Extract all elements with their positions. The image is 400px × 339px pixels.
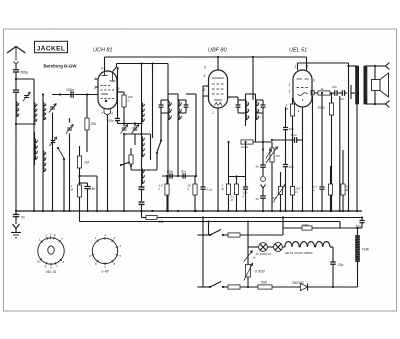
pot 0.5M	[273, 172, 286, 211]
coil L1 antenna	[16, 101, 19, 211]
transformer OT secondary	[364, 66, 367, 104]
trimmer C4	[66, 118, 73, 211]
coil L-osc bottom	[142, 157, 145, 185]
pickup jack	[261, 177, 266, 196]
IF1 coil b	[178, 94, 181, 126]
capacitor 5n pickup top	[256, 113, 272, 176]
wire x312 drop	[312, 96, 314, 211]
wire y176 row	[162, 175, 196, 177]
tube U1 UCH81 envelope	[98, 71, 117, 115]
resistor 20k feed	[142, 211, 165, 224]
coil L2	[34, 102, 37, 211]
diode 250/100	[291, 281, 358, 291]
ground bus	[15, 210, 362, 212]
coil L4	[35, 132, 38, 165]
capacitor 0.1u x322	[313, 92, 325, 211]
wire node y124	[15, 123, 36, 125]
resistor 1M AVC	[71, 182, 82, 222]
capacitor 100p y176	[167, 170, 174, 179]
wire U2 diode stubs	[203, 86, 209, 187]
switch S1a	[198, 230, 229, 237]
wire af line	[271, 139, 294, 141]
wire x152.5 drop	[152, 64, 154, 139]
tube U3 pin numbers	[288, 65, 316, 114]
socket diagram UEL51	[37, 233, 65, 275]
resistor 2M	[285, 98, 295, 140]
capacitor 5n pickup bottom	[256, 196, 266, 211]
resistor 1M osc	[77, 146, 88, 183]
trimmer C1	[23, 92, 30, 101]
wire x339 drop	[339, 96, 341, 211]
coil L5	[43, 150, 46, 211]
wire rail B y63.5	[113, 62, 168, 71]
speaker	[372, 66, 389, 104]
switch S2	[120, 162, 132, 170]
antenna	[7, 47, 26, 61]
capacitor 0.1u af	[291, 133, 303, 143]
wire mains pole mid	[208, 222, 210, 236]
wire U2 cathode down	[217, 108, 219, 211]
wire FeW bottom	[357, 262, 359, 287]
wire mains pole left	[202, 222, 204, 288]
lamp La1	[248, 243, 267, 252]
wire U2 plate to rail	[217, 57, 219, 70]
wire x253 drop	[252, 57, 254, 100]
heater UBF80	[315, 242, 333, 247]
label UBF80	[208, 48, 227, 54]
resistor 1k out	[318, 87, 330, 95]
speaker terminal bottom	[372, 101, 390, 108]
heater UCH81	[299, 242, 314, 247]
label heaters	[285, 251, 313, 255]
wire U3 pin6 up	[306, 57, 308, 70]
capacitor antenna 2nd	[13, 90, 19, 101]
label lamps	[255, 252, 271, 256]
tube U3 UEL51 envelope	[293, 70, 312, 107]
resistor 1.5k	[159, 175, 170, 211]
switch S-band	[57, 147, 65, 211]
wire U1 cathode down	[107, 115, 109, 211]
switch S1b	[198, 282, 229, 289]
capacitor 25u	[330, 247, 343, 288]
node antenna branch	[15, 78, 34, 90]
label UEL51	[289, 48, 307, 54]
resistor 20k	[85, 95, 96, 153]
wire x348.5 drop	[347, 63, 349, 211]
IF1 cap b	[178, 100, 188, 113]
capacitor 50p	[109, 67, 121, 124]
antenna socket	[14, 62, 19, 70]
wire link y134	[123, 133, 151, 160]
wire lamp branch	[247, 220, 249, 251]
capacitor 50u	[356, 218, 365, 229]
capacitor 10n x285 top	[283, 107, 294, 164]
tube U1 pin stubs	[95, 79, 99, 87]
IF2 coil b	[256, 94, 259, 126]
IF1 top link	[168, 93, 178, 95]
wire mid links	[131, 169, 157, 171]
coil L3	[42, 93, 46, 150]
wire rail A y57	[105, 56, 307, 58]
wire U3 pin1 up	[297, 63, 299, 70]
wire U1 plate to rail	[104, 57, 106, 71]
wire rail C y63	[298, 62, 349, 64]
trimmer C3	[49, 137, 56, 146]
IF1 coil a	[168, 64, 171, 127]
fuse Si1	[228, 233, 283, 237]
logo box JÄCKEL	[35, 41, 68, 52]
trimmer C2	[49, 103, 56, 211]
wire branch y176	[78, 175, 97, 211]
resistor 125	[290, 140, 300, 211]
IF2 cap a	[236, 100, 246, 113]
IF1 cap a	[159, 100, 168, 113]
tube U1 pin numbers	[93, 67, 120, 116]
wire IF1 a down	[167, 126, 169, 211]
wire IF2 b down	[255, 126, 257, 142]
wire link y123.5	[118, 122, 143, 124]
wire OT secondary top	[365, 65, 372, 67]
coil L-osc mid	[142, 136, 145, 157]
capacitor 10n out2	[338, 90, 345, 101]
heater UEL51	[282, 242, 299, 247]
ground symbol	[11, 224, 21, 238]
wire OT primary top	[349, 65, 358, 67]
wire heater top	[340, 222, 362, 236]
resistor 560	[318, 92, 334, 211]
capacitor 10n out1	[330, 85, 337, 96]
resistor 100	[117, 92, 133, 118]
resistor 0.2M x343	[341, 150, 350, 211]
wire branch down	[33, 79, 35, 102]
resistor 1M y185	[222, 141, 231, 211]
capacitor 5n AVC	[80, 183, 96, 211]
label UCH81	[93, 48, 113, 54]
resistor 0.1M y185	[231, 177, 239, 212]
IF2 coil a	[246, 94, 249, 126]
wire grid line y94.5	[52, 93, 98, 95]
capacitor osc 2	[139, 185, 145, 211]
transformer OT primary	[356, 66, 359, 104]
resistor 0.1M det	[241, 140, 253, 149]
IF2 cap b	[256, 100, 266, 113]
label Bernburg III-GW	[44, 64, 78, 69]
wire U3 pin9 out	[311, 91, 318, 95]
capacitor 0.1u x203	[200, 187, 212, 211]
wire U3 cathode down	[302, 107, 304, 211]
resistor osc	[129, 148, 133, 168]
resistor 100 heater	[283, 218, 340, 231]
socket diagram U-80	[89, 233, 121, 274]
resistor FeW	[355, 235, 370, 262]
capacitor coupling OT	[345, 85, 355, 99]
tube U2 UBF80 envelope	[209, 70, 228, 108]
resistor 30k	[188, 176, 198, 211]
lamp La2	[267, 243, 282, 252]
wire OT secondary bottom	[365, 103, 372, 105]
capacitor 50n y176	[181, 170, 186, 179]
label 500p antenna	[21, 71, 29, 75]
capacitor 10n x285 bottom	[283, 165, 294, 212]
wire line y217	[157, 216, 363, 218]
pot 1k shunt	[244, 251, 256, 262]
wire U2 pin7 to IF2	[228, 97, 239, 100]
tube U2 pin numbers	[204, 66, 231, 116]
wire row1 up	[282, 222, 284, 236]
wire x196	[186, 94, 197, 177]
trimmer osc a	[120, 118, 127, 211]
speaker terminal top	[372, 63, 390, 70]
wire IF1 b down	[177, 126, 179, 177]
capacitor osc 1	[139, 187, 145, 201]
trimmer osc b	[131, 124, 138, 146]
capacitor 500p antenna	[13, 70, 19, 79]
varistor U3010	[244, 251, 265, 288]
wire OT primary bottom	[356, 104, 358, 211]
capacitor 5n ground	[13, 211, 25, 224]
IF2 top link	[246, 93, 256, 95]
coil L-osc top	[140, 62, 144, 136]
wire line y222	[80, 218, 341, 223]
switch S-osc	[156, 113, 162, 170]
resistor 50	[258, 281, 296, 290]
capacitor 500p grid	[66, 88, 74, 98]
fuse Si2	[228, 285, 258, 289]
pot 1M volume	[253, 142, 280, 211]
resistor x330 1k	[328, 166, 332, 211]
capacitor 100p y185	[229, 141, 249, 211]
